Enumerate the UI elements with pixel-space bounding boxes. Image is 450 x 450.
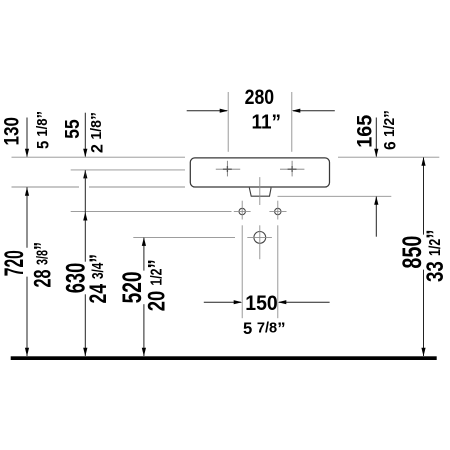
faucet hole cross left xyxy=(216,161,240,177)
dimension 720 stem lower xyxy=(26,277,28,356)
svg-text:165: 165 xyxy=(353,114,376,147)
svg-text:5 7/8”: 5 7/8” xyxy=(243,320,286,338)
fixing hole vertical extension right xyxy=(277,201,279,319)
svg-text:6 1/2”: 6 1/2” xyxy=(381,110,399,150)
arrow up to drain line at 520 xyxy=(142,237,146,246)
rim level extension line left xyxy=(12,156,186,158)
fixing hole vertical extension left xyxy=(241,201,243,319)
arrow up to notch bottom at 165 xyxy=(374,196,378,205)
dimension 150 line left tail xyxy=(204,301,241,303)
drain cross vertical xyxy=(259,225,261,259)
arrow left toward 280 right extension xyxy=(292,109,301,113)
svg-text:55: 55 xyxy=(61,119,84,139)
dimension 55 upper stem xyxy=(84,113,86,157)
faucet hole level extension line xyxy=(71,169,185,171)
arrow down to rim line at 55 xyxy=(83,149,87,158)
svg-text:280: 280 xyxy=(245,86,275,109)
svg-text:11”: 11” xyxy=(252,111,282,133)
dimension 850 stem upper xyxy=(423,158,425,235)
notch bottom extension line xyxy=(278,195,392,197)
fixing holes centerline xyxy=(71,211,287,213)
fixing hole left xyxy=(239,208,245,214)
basin bottom extension line xyxy=(12,186,186,188)
svg-text:520: 520 xyxy=(117,271,147,303)
dimension 720/630 shared stem upper xyxy=(84,170,86,262)
svg-text:5 1/8”: 5 1/8” xyxy=(34,111,52,149)
drain level extension line xyxy=(133,236,235,238)
dimension 520 stem upper xyxy=(143,238,145,271)
dimension 280 line right tail xyxy=(293,110,335,112)
arrow up to fixing holes line at 630 xyxy=(83,212,87,221)
rim level extension line right xyxy=(338,156,439,158)
overflow notch below basin xyxy=(249,188,271,197)
washbasin front outline xyxy=(190,158,329,187)
dimension 630 stem lower xyxy=(84,294,86,356)
arrow down to floor at 720 xyxy=(25,348,29,357)
dimension 520 stem lower xyxy=(143,304,145,356)
floor line xyxy=(11,356,437,360)
faucet hole cross right xyxy=(280,161,304,177)
dimension 165 upper stem xyxy=(375,118,377,157)
arrow down to rim line at 165 xyxy=(374,149,378,158)
arrow down to floor at 520 xyxy=(142,348,146,357)
dimension 165 lower stem xyxy=(375,197,377,237)
arrow down to rim line at 130 xyxy=(25,149,29,158)
svg-text:2 1/8”: 2 1/8” xyxy=(89,112,107,153)
arrow up to basin bottom at 720 xyxy=(25,187,29,196)
svg-text:720: 720 xyxy=(0,250,29,276)
arrow right toward 280 left extension xyxy=(220,109,229,113)
arrow down to floor at 850 xyxy=(421,348,425,357)
drain cross horizontal xyxy=(247,236,272,238)
fixing hole right xyxy=(275,208,281,214)
arrow up to faucet level at 55 xyxy=(83,170,87,179)
arrow right toward 150 left extension xyxy=(234,300,243,304)
dimension 720 stem upper xyxy=(26,187,28,248)
dimension 150 line right tail xyxy=(279,301,330,303)
svg-text:150: 150 xyxy=(245,292,278,315)
faucet spacing extension line left xyxy=(227,92,229,152)
dimension 280 line left tail xyxy=(187,110,227,112)
dimension 130 upper stem xyxy=(26,118,28,157)
faucet spacing extension line right xyxy=(291,92,293,152)
arrow down to floor at 630 xyxy=(83,348,87,357)
arrow up to rim line at 850 xyxy=(421,157,425,166)
drain hole xyxy=(254,232,266,244)
dimension 850 stem lower xyxy=(423,270,425,356)
svg-text:130: 130 xyxy=(1,117,24,146)
centerline through notch xyxy=(259,177,261,205)
arrow left toward 150 right extension xyxy=(278,300,287,304)
